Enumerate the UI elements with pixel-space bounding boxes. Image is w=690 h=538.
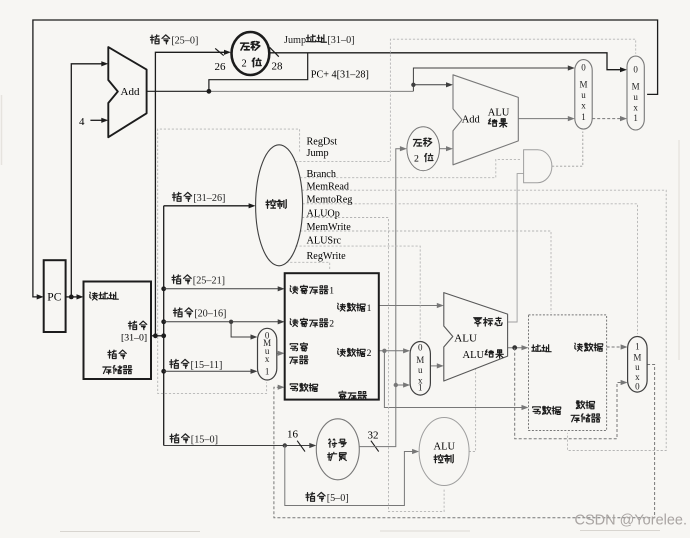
wire instruction 31-0 output from instruction memory [151,335,164,337]
svg-text:0: 0 [418,343,423,353]
wire branch mux output to jump mux input 1 [592,116,627,121]
mux MemtoReg write-back [628,337,648,393]
svg-text:2: 2 [242,59,247,70]
node instruction bus tap 31-0 right [161,333,166,338]
node instruction bus tap 20-16 [161,319,166,324]
wire branch adder result to branch mux input 1 [518,116,575,121]
width label 28 [272,61,284,73]
mux jump [627,56,644,130]
wire instruction 15-0 to sign extend [164,443,317,448]
svg-text:x: x [633,103,638,113]
svg-text:MemtoReg: MemtoReg [307,195,353,206]
net label instruction 25-21 [172,275,225,287]
wire instruction 25-0 from instruction bus to shift-left-2 [155,50,231,336]
node PC+4 to branch adder junction [411,83,415,87]
wire RegDst mux output to write register [277,351,285,356]
svg-text:1: 1 [367,303,372,314]
wire AND gate output to branch mux select [552,132,583,167]
wire MemWrite control to data memory write port [300,231,551,313]
svg-text:1: 1 [633,113,638,123]
wire ALU result bypass to MemtoReg mux input 0 [515,348,628,439]
svg-text:1: 1 [418,383,423,393]
wire instruction 5-0 to ALU control [285,446,419,506]
wire read data 2 to ALUSrc mux input 0 [379,348,410,353]
svg-text:[15–0]: [15–0] [191,435,218,446]
width label 16 [287,429,299,441]
memory instruction memory [84,282,152,380]
sign extend unit [316,419,359,480]
node read data 2 branch to data memory [382,349,386,353]
wire PC+4 upper four bits to jump address concatenation [209,53,308,92]
wire PC+4 continuation to branch units [209,90,414,92]
wire new-PC feedback loop from jump mux output to PC input [33,20,658,300]
node instruction bus tap 31-0 left [153,333,158,338]
register file [285,273,379,400]
svg-text:ALU: ALU [488,108,510,119]
svg-text:u: u [581,90,586,100]
svg-text:1: 1 [581,112,586,122]
wire instruction 31-26 to control unit [164,203,256,208]
node ALU result branch junction [512,345,517,350]
wire sign extend output to shift-left-2 and ALUSrc mux [359,146,407,447]
svg-text:1: 1 [635,342,640,352]
wire instruction 15-11 to RegDst mux input 1 [164,369,258,374]
node PC+4 branch junction [207,89,212,94]
svg-text:ALUSrc: ALUSrc [307,236,342,247]
node instruction bus tap 25-21 [161,286,166,291]
svg-text:2: 2 [329,319,334,330]
svg-text:ALU: ALU [454,333,477,345]
wire instruction 25-21 to read-register-1 [164,286,285,291]
svg-text:[20–16]: [20–16] [194,309,226,320]
svg-text:0: 0 [633,65,638,75]
svg-text:M: M [416,355,424,365]
net label instruction 20-16 [173,308,226,320]
wire read data 1 to ALU input 1 [379,303,444,308]
wire RegWrite control to register file write enable [286,262,330,271]
node sign extend branch to ALUSrc mux [394,383,398,387]
wire jump address from shift-left-2 to jump mux input 0 [269,53,627,73]
wire MemtoReg control to MemtoReg mux select [303,204,638,334]
shift-left-2 branch U-shift2 [407,127,440,171]
wire instruction 20-16 to read-register-2 [164,319,285,324]
control signal name labels [307,136,353,262]
svg-text:[31–0]: [31–0] [121,332,147,343]
width label 26 [215,61,227,73]
svg-text:2: 2 [367,348,372,359]
net label PC+4 31-28 [311,70,369,81]
svg-text:M: M [633,353,641,363]
wire MemtoReg mux output write-back to register file write data [274,365,655,518]
svg-text:PC+ 4[31–28]: PC+ 4[31–28] [311,70,369,81]
svg-text:u: u [635,362,640,372]
net label instruction 15-0 [170,434,218,446]
net label Jump address 31-0 [284,35,355,46]
wire PC output up to PC+4 adder input [71,61,108,297]
wire PC+4 up to branch adder and branch mux input 0 [413,65,574,91]
ALU main [444,293,508,381]
svg-text:M: M [632,82,640,92]
svg-text:x: x [265,354,270,364]
svg-text:ALU: ALU [434,442,456,453]
scan artifact page right edge [678,140,680,360]
svg-text:0: 0 [581,63,586,73]
svg-text:Branch: Branch [307,169,336,180]
svg-text:2: 2 [414,154,419,165]
svg-text:u: u [633,92,638,102]
node instruction 20-16 branch to RegDst mux [229,320,233,324]
svg-text:PC: PC [47,292,61,304]
net label instruction 25-0 [150,35,198,47]
wire PC+4 into branch adder top input [413,82,453,87]
wire ALU control output to ALU select input [469,369,476,452]
svg-text:Jump: Jump [284,35,306,46]
width slash 16 [297,441,305,452]
svg-text:[31–26]: [31–26] [193,193,225,204]
wire PC output to instruction memory read-address [66,294,84,299]
svg-text:RegDst: RegDst [307,136,338,147]
svg-text:1: 1 [329,286,334,297]
scan artifact page left edge [1,95,3,165]
scan artifact bottom edge [60,531,660,532]
wire constant 4 into PC+4 adder [90,118,108,123]
wire sign extend branch into ALUSrc mux input 1 [396,382,410,387]
memory data memory [529,315,607,431]
node PC output junction [69,295,74,300]
wire ALUOp control to ALU control unit [302,218,444,512]
svg-text:ALU: ALU [463,350,485,361]
svg-text:26: 26 [215,61,227,73]
svg-text:Jump: Jump [307,148,329,159]
wire ALU result to data memory address [508,345,529,350]
wire read data 2 down to data memory write data [384,351,528,410]
svg-text:[31–0]: [31–0] [327,35,354,46]
wire ALUSrc mux output to ALU input 2 [430,363,443,368]
svg-text:28: 28 [272,61,284,73]
net label instruction 5-0 [306,492,349,504]
svg-text:Add: Add [462,115,481,126]
svg-text:Add: Add [121,86,140,98]
adder PC+4 Add [108,47,146,137]
svg-text:1: 1 [265,367,270,377]
ALU control unit [419,418,469,486]
svg-text:RegWrite: RegWrite [307,251,347,262]
wire instruction vertical bus [163,206,165,446]
wire ALUSrc control to ALUSrc mux select [296,246,421,339]
control unit [256,145,303,266]
svg-text:[15–11]: [15–11] [191,360,223,371]
wire ALU zero flag to AND gate [508,174,524,322]
value label 4 [79,116,85,128]
svg-text:[5–0]: [5–0] [327,493,349,504]
wire MemRead control to data memory read port [302,190,666,450]
svg-text:CSDN @Yorelee.: CSDN @Yorelee. [575,513,688,529]
wire Jump control to jump mux select [295,39,635,161]
shift-left-2 jump U-shift1 [232,32,270,75]
watermark CSDN @Yorelee. [575,513,688,529]
svg-text:0: 0 [635,382,640,392]
mux branch PCSrc [575,60,592,130]
wire Branch control to AND gate [300,159,521,177]
svg-text:[25–21]: [25–21] [193,276,225,287]
svg-text:u: u [418,365,423,375]
svg-text:ALUOp: ALUOp [307,208,340,219]
wire PC+4 adder output [147,90,209,92]
gate AND branch [524,150,552,183]
wire instruction 20-16 down into RegDst mux input 0 [231,322,257,340]
svg-text:16: 16 [287,429,299,441]
register PC [44,260,66,332]
svg-text:[25–0]: [25–0] [171,36,198,47]
wire shift-left-2 branch output into branch adder [440,146,454,151]
width slash 28 [270,47,279,56]
mux ALUSrc [410,342,430,396]
node instruction 15-0 branch to instruction 5-0 [283,443,287,447]
width slash 26 [215,48,224,55]
svg-text:MemRead: MemRead [307,181,349,192]
wire data memory read data to MemtoReg mux input 1 [607,344,628,349]
svg-text:MemWrite: MemWrite [307,222,352,233]
svg-text:M: M [579,80,587,90]
mux RegDst write-register [258,328,277,380]
net label instruction 31-26 [172,192,225,204]
net label instruction 15-11 [170,359,223,371]
width slash 32 [371,441,379,452]
svg-text:32: 32 [368,430,379,442]
svg-text:x: x [635,372,640,382]
width label 32 [368,430,379,442]
adder branch Add [453,75,518,165]
svg-text:4: 4 [79,116,85,128]
svg-text:x: x [581,101,586,111]
node instruction bus tap 15-11 [161,369,166,374]
wire RegDst control to RegDst mux select [158,129,300,394]
